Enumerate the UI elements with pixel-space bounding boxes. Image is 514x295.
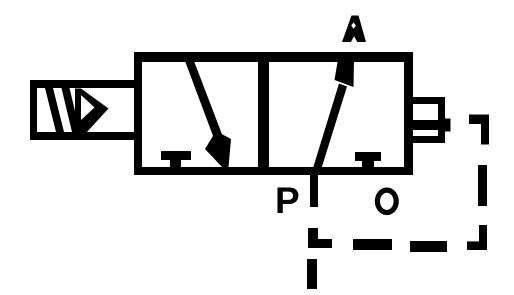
svg-text:P: P — [275, 180, 300, 221]
